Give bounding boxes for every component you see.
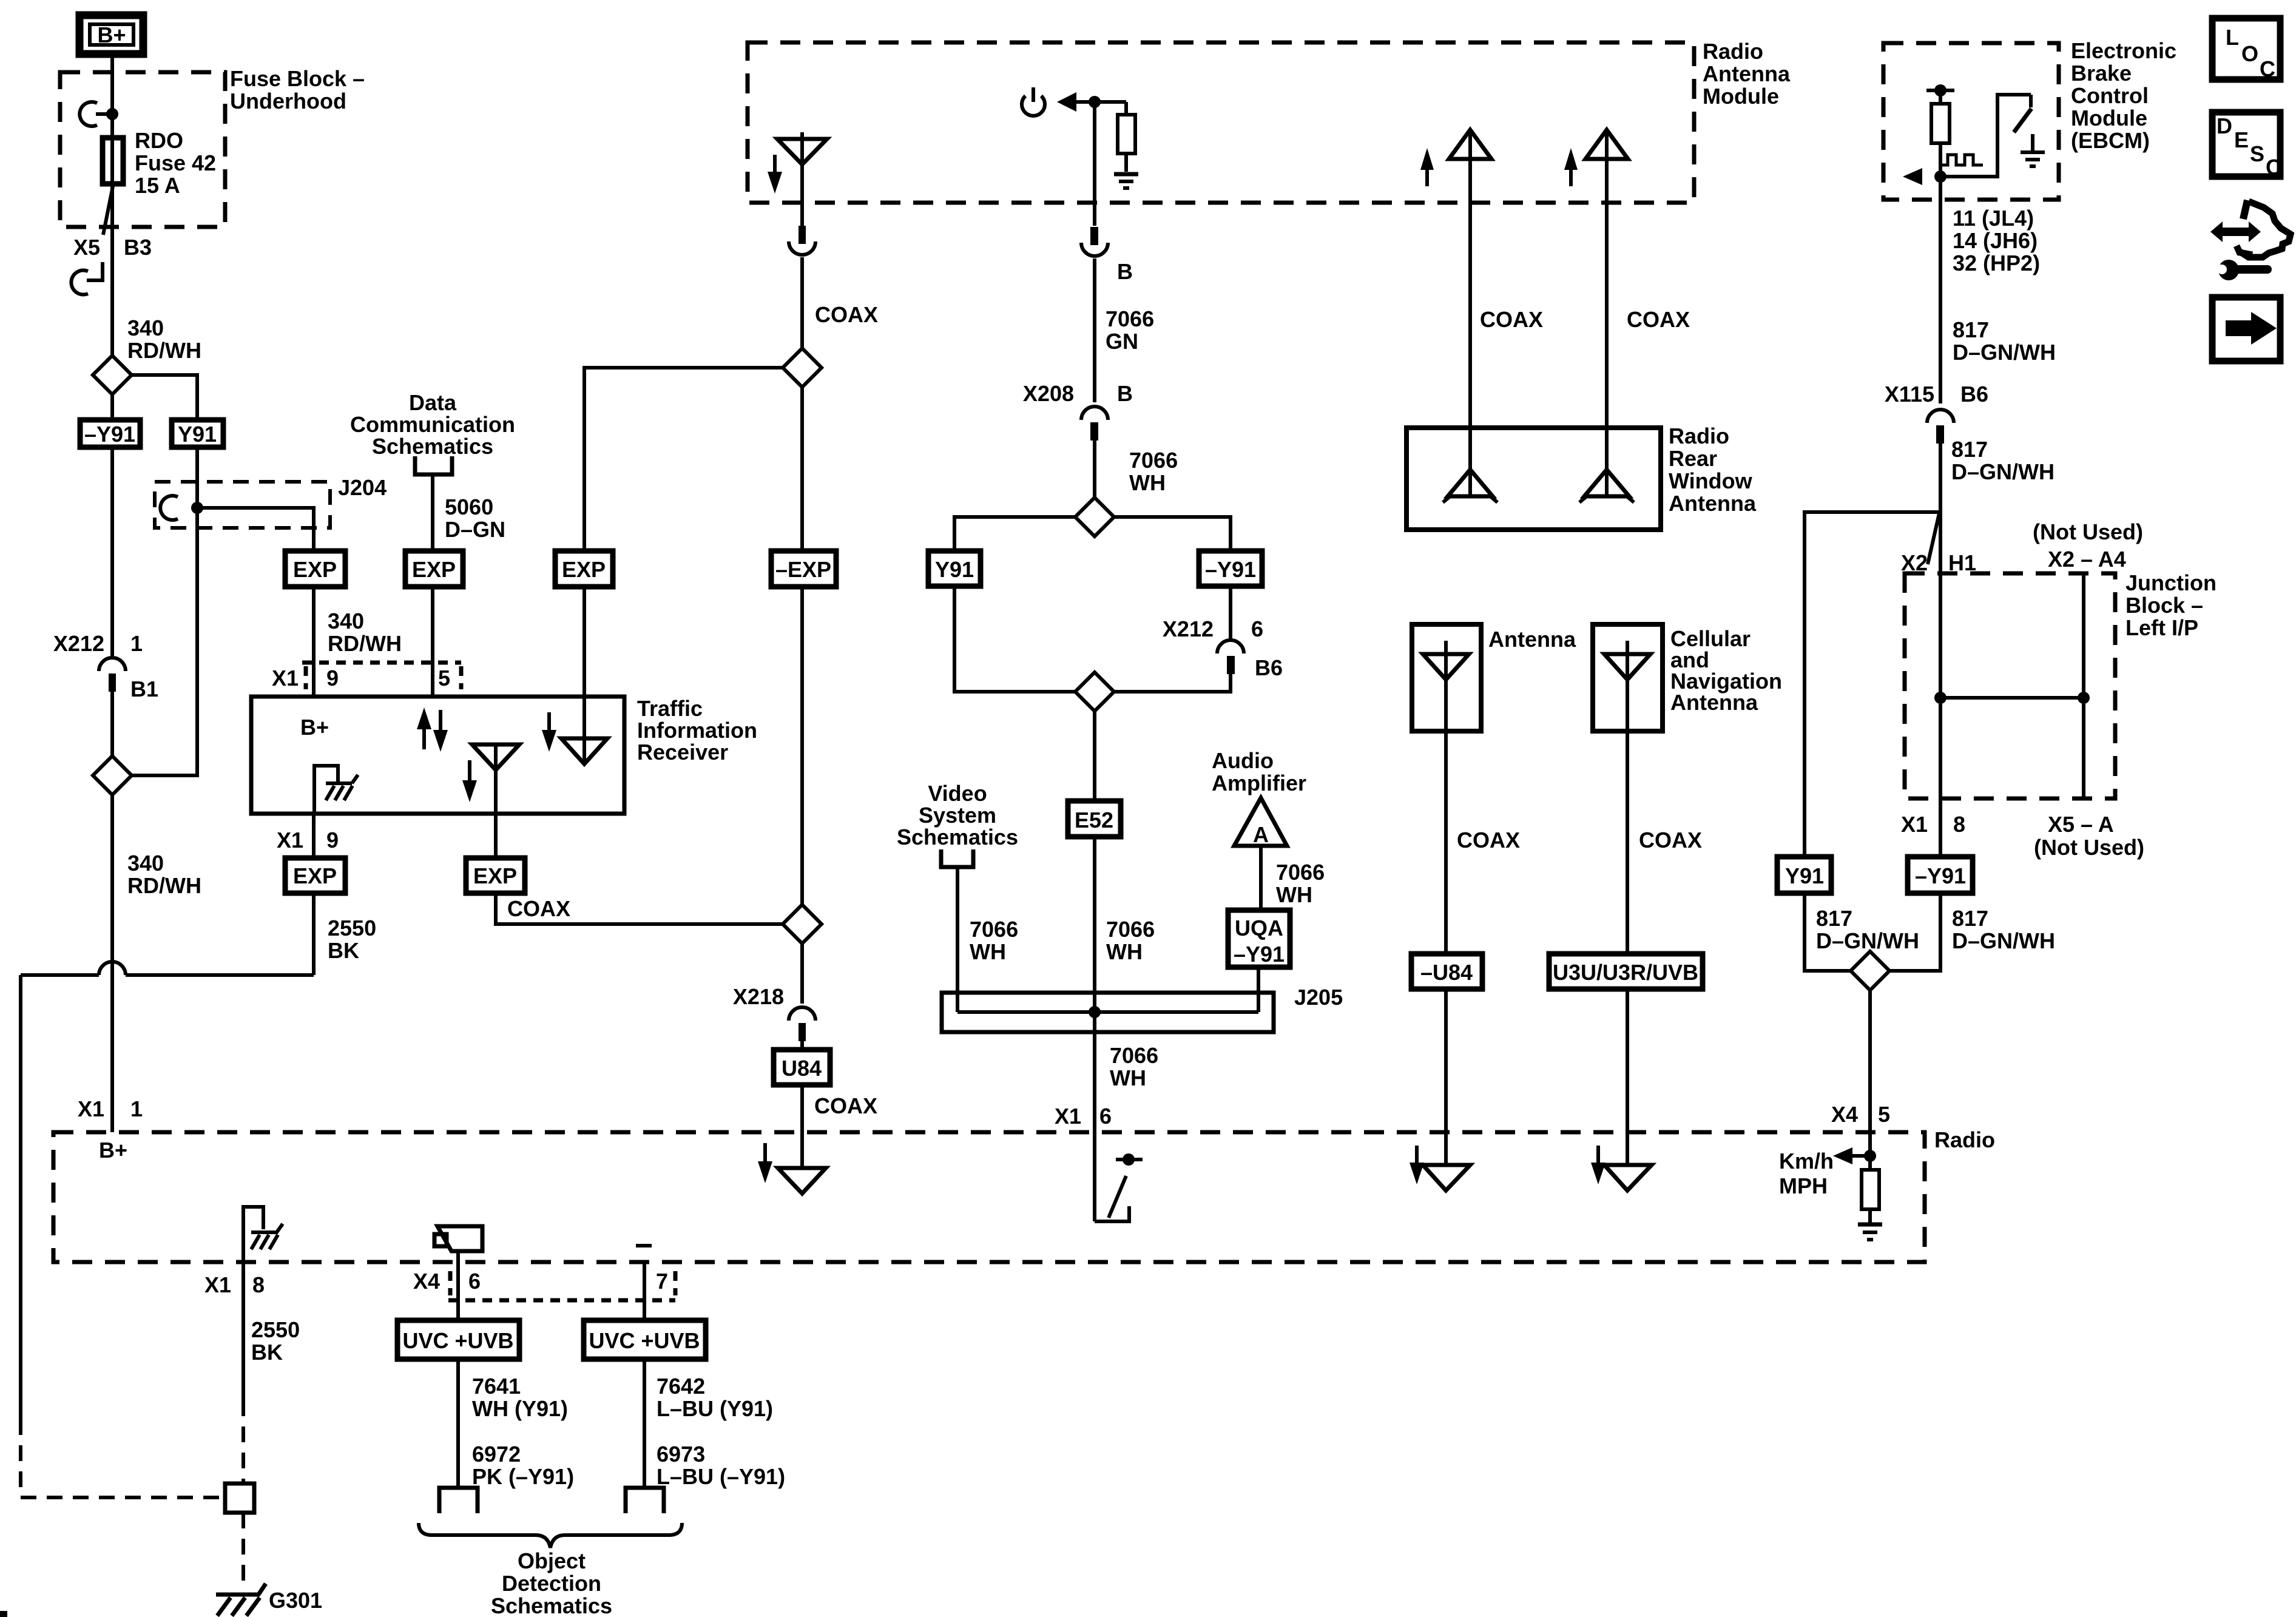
wire 340 RD/WH label lower bbox=[127, 851, 201, 898]
svg-text:340: 340 bbox=[127, 851, 164, 876]
Fuse Block - Underhood dashed box bbox=[60, 72, 225, 227]
module up arrow 1 bbox=[1420, 148, 1434, 186]
receiver antenna down arrow bbox=[462, 760, 477, 802]
wire 2 to UVC bbox=[643, 1261, 646, 1320]
svg-text:X4: X4 bbox=[413, 1269, 440, 1294]
EBCM dashed box bbox=[1883, 43, 2059, 200]
svg-text:S: S bbox=[2250, 141, 2264, 166]
svg-text:D–GN/WH: D–GN/WH bbox=[1816, 928, 1919, 953]
wire S2 to radio X1-1 bbox=[110, 795, 114, 1132]
wire U84 into radio bbox=[800, 1085, 804, 1168]
wire B to X208 bbox=[1093, 258, 1096, 402]
svg-text:EXP: EXP bbox=[293, 557, 337, 582]
svg-text:WH (Y91): WH (Y91) bbox=[472, 1396, 568, 1421]
wire bracket to EXP2 bbox=[431, 474, 434, 551]
module antenna up triangle 1 bbox=[1449, 130, 1491, 159]
wire EXP2 to receiver pin 5 bbox=[431, 587, 434, 697]
wire coax antenna module to splice S6 bbox=[789, 226, 815, 348]
Radio Antenna Module dashed box bbox=[748, 42, 1694, 203]
svg-text:11 (JL4): 11 (JL4) bbox=[1953, 206, 2034, 231]
svg-text:Receiver: Receiver bbox=[637, 740, 728, 765]
svg-text:340: 340 bbox=[328, 609, 364, 633]
wire 817 label under -Y91 bbox=[1952, 906, 2055, 953]
J205 internal bus bbox=[957, 993, 1258, 1032]
expansion box EXP 1 bbox=[285, 551, 345, 587]
antenna symbol in Cellular box bbox=[1604, 641, 1650, 731]
wire connector to G301 dashed bbox=[241, 1513, 245, 1591]
inline connector square bbox=[225, 1484, 254, 1513]
connector stub left bbox=[439, 1488, 478, 1513]
svg-text:D–GN/WH: D–GN/WH bbox=[1952, 928, 2055, 953]
svg-text:X1: X1 bbox=[204, 1272, 231, 1297]
wire Y91 to splice S5 bbox=[954, 586, 1075, 692]
Cellular and Navigation Antenna box bbox=[1593, 624, 1663, 731]
wire EXP1 to receiver pin 9 bbox=[312, 587, 316, 697]
page corner mark bbox=[0, 1611, 7, 1617]
radio antenna input triangle 3 bbox=[1604, 1165, 1652, 1190]
coax wire -U84 into radio bbox=[1444, 989, 1448, 1165]
wire S6 to -EXP bbox=[800, 387, 804, 551]
radio pin label X1 6 bbox=[1055, 1104, 1112, 1129]
dashed ground return to connector bbox=[21, 1419, 225, 1497]
wire X218 to U84 bbox=[800, 1041, 804, 1050]
next page arrow box bbox=[2212, 297, 2280, 361]
RDO Fuse 42 15 A label bbox=[135, 128, 216, 198]
svg-text:Traffic: Traffic bbox=[637, 696, 703, 721]
svg-text:X218: X218 bbox=[733, 984, 784, 1009]
wire amplifier to UQA bbox=[1259, 846, 1263, 910]
J204 junction dot bbox=[191, 502, 203, 514]
wire X212-6 to splice S5 bbox=[1114, 674, 1231, 692]
svg-text:B+: B+ bbox=[300, 715, 329, 740]
svg-text:(Not Used): (Not Used) bbox=[2034, 835, 2144, 860]
svg-text:X4: X4 bbox=[1831, 1102, 1858, 1127]
radio antenna input arrow bbox=[758, 1143, 772, 1183]
svg-text:EXP: EXP bbox=[562, 557, 606, 582]
receiver ground pin X1 9 bbox=[277, 828, 339, 852]
not used label X5-A bbox=[2034, 812, 2144, 860]
svg-text:B6: B6 bbox=[1960, 382, 1988, 407]
receiver internal antenna symbol bbox=[472, 744, 519, 814]
Audio Amplifier label bbox=[1212, 748, 1306, 795]
svg-text:Junction: Junction bbox=[2125, 570, 2217, 595]
svg-text:Y91: Y91 bbox=[935, 557, 974, 582]
svg-text:RD/WH: RD/WH bbox=[127, 873, 201, 898]
receiver RF input triangle bbox=[561, 738, 607, 764]
wire labels 7641 WH 6972 PK bbox=[472, 1374, 574, 1489]
EBCM pwm signal bbox=[1942, 155, 1983, 165]
junction dot power feed bbox=[1089, 96, 1101, 108]
svg-text:B+: B+ bbox=[99, 1138, 127, 1163]
svg-text:6: 6 bbox=[1099, 1104, 1112, 1129]
svg-text:J205: J205 bbox=[1294, 985, 1343, 1010]
module ground bbox=[1114, 174, 1138, 188]
svg-text:MPH: MPH bbox=[1779, 1173, 1828, 1198]
svg-text:Fuse 42: Fuse 42 bbox=[135, 150, 216, 175]
svg-text:B3: B3 bbox=[124, 235, 152, 260]
svg-text:WH: WH bbox=[1110, 1065, 1146, 1090]
radio internal ground to G301 bbox=[243, 1207, 283, 1262]
power symbol bbox=[1022, 87, 1045, 116]
svg-text:X1: X1 bbox=[272, 666, 299, 690]
svg-text:A: A bbox=[1253, 822, 1269, 847]
wire branch to Y91 right bbox=[1805, 512, 1940, 857]
radio antenna input triangle 2 bbox=[1423, 1165, 1470, 1190]
wire 2550 BK label lower bbox=[251, 1317, 300, 1365]
radio pin label X4 6 bbox=[413, 1269, 481, 1295]
connector X212 pin 1 B1 bbox=[53, 631, 158, 701]
EBCM output arrow bbox=[1903, 168, 1922, 185]
svg-text:B+: B+ bbox=[97, 22, 126, 47]
svg-text:B1: B1 bbox=[130, 677, 158, 701]
svg-text:PK (–Y91): PK (–Y91) bbox=[472, 1464, 574, 1489]
wire S4 to -Y91 center bbox=[1114, 517, 1231, 551]
not used label X2-A4 bbox=[2033, 519, 2143, 572]
wire -Y91 right to splice S7 bbox=[1889, 893, 1940, 971]
svg-text:E52: E52 bbox=[1075, 808, 1113, 832]
option box U3U/U3R/UVB bbox=[1549, 954, 1703, 989]
radio antenna input arrow 3 bbox=[1591, 1146, 1606, 1184]
svg-text:L–BU (Y91): L–BU (Y91) bbox=[657, 1396, 773, 1421]
Data Communication Schematics label bbox=[350, 390, 515, 459]
audio amplifier symbol A bbox=[1234, 798, 1287, 847]
wire 2550 BK label bbox=[328, 916, 376, 963]
svg-text:X1: X1 bbox=[1055, 1104, 1081, 1129]
fuse block cavity connector bbox=[79, 102, 118, 126]
Km/h MPH label bbox=[1779, 1149, 1834, 1198]
wire radio ground dashed to connector bbox=[241, 1400, 245, 1484]
svg-text:15 A: 15 A bbox=[135, 173, 180, 198]
svg-text:G301: G301 bbox=[269, 1588, 322, 1613]
svg-text:X1: X1 bbox=[78, 1096, 104, 1121]
radio pin label X4 5 bbox=[1831, 1102, 1890, 1127]
module up arrow 2 bbox=[1564, 148, 1578, 186]
svg-text:7066: 7066 bbox=[1129, 448, 1178, 473]
svg-text:U84: U84 bbox=[782, 1056, 822, 1081]
svg-text:7066: 7066 bbox=[1106, 306, 1154, 331]
svg-text:7066: 7066 bbox=[970, 917, 1018, 942]
off-page bracket video bbox=[941, 849, 973, 867]
connector X212 pin 6 B6 bbox=[1163, 616, 1283, 680]
off-page bracket data comm bbox=[415, 456, 452, 474]
svg-text:7642: 7642 bbox=[657, 1374, 705, 1399]
svg-text:6: 6 bbox=[468, 1269, 481, 1294]
power feed B+ terminal bbox=[79, 15, 143, 54]
expansion box -EXP bbox=[771, 551, 836, 587]
svg-text:Video: Video bbox=[928, 781, 987, 806]
wire -EXP to splice S3 bbox=[800, 587, 804, 905]
option box UVC +UVB left bbox=[397, 1320, 519, 1359]
svg-text:Data: Data bbox=[409, 390, 457, 415]
svg-text:System: System bbox=[919, 803, 996, 828]
svg-text:Y91: Y91 bbox=[1785, 863, 1824, 888]
svg-text:6973: 6973 bbox=[657, 1442, 705, 1467]
svg-text:8: 8 bbox=[252, 1272, 265, 1297]
Radio dashed box bbox=[53, 1132, 1925, 1262]
svg-text:Km/h: Km/h bbox=[1779, 1149, 1834, 1173]
connector X1 dashed line bbox=[302, 663, 461, 689]
svg-text:GN: GN bbox=[1106, 329, 1138, 354]
DESC legend box bbox=[2212, 112, 2281, 180]
svg-text:COAX: COAX bbox=[1480, 307, 1543, 332]
wire X115 through junction block bbox=[1939, 444, 1942, 857]
svg-text:–Y91: –Y91 bbox=[1205, 557, 1256, 582]
svg-text:7641: 7641 bbox=[472, 1374, 521, 1399]
EBCM label bbox=[2071, 38, 2176, 153]
svg-text:817: 817 bbox=[1953, 317, 1989, 342]
svg-text:Module: Module bbox=[2071, 106, 2147, 130]
module antenna up triangle 2 bbox=[1585, 130, 1628, 159]
wire 340 RD/WH label upper bbox=[127, 316, 201, 363]
option box UQA -Y91 bbox=[1228, 910, 1290, 967]
svg-text:6: 6 bbox=[1251, 616, 1263, 641]
Cellular and Navigation Antenna label bbox=[1670, 626, 1782, 715]
svg-text:COAX: COAX bbox=[507, 896, 570, 921]
radio internal switch bbox=[1095, 1153, 1143, 1221]
svg-text:8: 8 bbox=[1953, 812, 1965, 837]
svg-text:Electronic: Electronic bbox=[2071, 38, 2176, 63]
splice S4 diamond bbox=[1075, 498, 1114, 536]
splice pack J205 box bbox=[942, 993, 1274, 1032]
svg-text:Window: Window bbox=[1669, 468, 1753, 493]
EBCM supply node bbox=[1926, 84, 1954, 96]
svg-text:Antenna: Antenna bbox=[1703, 61, 1791, 86]
svg-text:–Y91: –Y91 bbox=[84, 422, 135, 447]
svg-text:D: D bbox=[2217, 113, 2232, 138]
svg-text:L: L bbox=[2226, 25, 2239, 50]
svg-text:J204: J204 bbox=[338, 475, 387, 500]
Radio Rear Window Antenna box bbox=[1406, 428, 1661, 530]
connector X218 bbox=[733, 984, 815, 1041]
antenna symbol in Antenna box bbox=[1423, 641, 1469, 731]
connector X208 pin B bbox=[1023, 381, 1133, 441]
junction block second wire bbox=[2082, 573, 2085, 798]
wire -Y91 to connector X212 bbox=[110, 447, 114, 657]
svg-text:817: 817 bbox=[1952, 906, 1988, 931]
svg-text:(Not Used): (Not Used) bbox=[2033, 519, 2143, 544]
svg-text:Module: Module bbox=[1703, 84, 1779, 109]
Junction Block Left I/P dashed box bbox=[1905, 573, 2115, 798]
expansion box EXP 3 bbox=[555, 551, 613, 587]
option box -Y91 bbox=[80, 420, 140, 447]
svg-text:817: 817 bbox=[1951, 437, 1988, 462]
connector X5 pin B3 bbox=[71, 186, 152, 295]
expansion box EXP 2 bbox=[405, 551, 463, 587]
object detection brace bbox=[419, 1523, 682, 1548]
radio antenna input triangle bbox=[778, 1168, 826, 1193]
svg-text:Rear: Rear bbox=[1669, 446, 1717, 471]
rear window antenna element 2 bbox=[1579, 470, 1634, 502]
junction block pin X1 8 bbox=[1901, 812, 1965, 837]
svg-text:Left I/P: Left I/P bbox=[2125, 615, 2198, 640]
wire J205 to radio X1-6 bbox=[1093, 1032, 1096, 1221]
EBCM output dot bbox=[1934, 170, 1947, 183]
svg-text:Schematics: Schematics bbox=[372, 434, 493, 459]
svg-text:Control: Control bbox=[2071, 83, 2149, 108]
svg-text:7066: 7066 bbox=[1110, 1043, 1158, 1068]
connector X2 pin H1 bbox=[1901, 513, 1976, 575]
wire E52 to J205 bbox=[1093, 837, 1096, 1012]
wire 7066 WH label video bbox=[970, 917, 1018, 964]
svg-text:D–GN: D–GN bbox=[445, 517, 505, 542]
EBCM pin labels bbox=[1953, 206, 2040, 275]
wire 817 D-GN/WH label 1 bbox=[1953, 317, 2056, 365]
wire Y91 right to splice S7 bbox=[1805, 893, 1851, 971]
svg-text:7066: 7066 bbox=[1106, 917, 1155, 942]
wire S6 to EXP3 bbox=[584, 368, 783, 551]
svg-text:340: 340 bbox=[127, 316, 164, 340]
svg-text:2550: 2550 bbox=[328, 916, 376, 940]
wire receiver to EXP4 bbox=[312, 814, 316, 858]
svg-text:Antenna: Antenna bbox=[1488, 627, 1576, 652]
module connector terminal B bbox=[1081, 227, 1133, 284]
wire 340 RD/WH label EXP bbox=[328, 609, 402, 656]
service tool icon bbox=[2210, 200, 2291, 280]
svg-text:COAX: COAX bbox=[815, 302, 878, 327]
Traffic Information Receiver box bbox=[251, 697, 624, 814]
svg-text:WH: WH bbox=[1106, 939, 1143, 964]
pin labels X1 9 5 bbox=[272, 666, 450, 690]
object detection module dashed edge bbox=[448, 1271, 675, 1300]
svg-text:–Y91: –Y91 bbox=[1234, 942, 1285, 967]
svg-text:WH: WH bbox=[1129, 470, 1166, 495]
svg-text:RD/WH: RD/WH bbox=[328, 631, 402, 656]
splice S7 diamond bbox=[1851, 951, 1889, 990]
wire -Y91 to connector X212-6 bbox=[1229, 586, 1232, 639]
wire B+ to splice S1 bbox=[110, 55, 114, 357]
wire 7066 WH label lower bbox=[1110, 1043, 1158, 1090]
svg-text:1: 1 bbox=[130, 631, 143, 656]
svg-text:WH: WH bbox=[1276, 882, 1312, 907]
wire UVC left down bbox=[456, 1359, 460, 1488]
fuse RDO Fuse 42 15 A bbox=[103, 138, 123, 184]
EBCM ground bbox=[2021, 134, 2045, 166]
svg-text:Brake: Brake bbox=[2071, 61, 2132, 86]
option box -Y91 center bbox=[1199, 551, 1262, 586]
svg-text:–EXP: –EXP bbox=[775, 557, 831, 582]
svg-text:X115: X115 bbox=[1885, 382, 1934, 407]
svg-text:COAX: COAX bbox=[1627, 307, 1690, 332]
splice S3 diamond bbox=[783, 905, 822, 944]
wire X208 to splice S4 bbox=[1093, 441, 1096, 498]
rear view camera icon bbox=[434, 1226, 482, 1251]
svg-text:–U84: –U84 bbox=[1420, 960, 1473, 985]
wire 5060 D-GN label bbox=[445, 495, 505, 542]
svg-text:EXP: EXP bbox=[293, 863, 337, 888]
svg-text:7066: 7066 bbox=[1276, 860, 1325, 885]
svg-text:D–GN/WH: D–GN/WH bbox=[1951, 459, 2055, 484]
coax wire antenna to -U84 bbox=[1444, 731, 1448, 954]
wire S5 to E52 bbox=[1093, 711, 1096, 801]
svg-text:COAX: COAX bbox=[1639, 828, 1702, 852]
svg-text:BK: BK bbox=[251, 1340, 283, 1365]
wire 817 D-GN/WH label 2 bbox=[1951, 437, 2055, 484]
option box Y91 center bbox=[928, 551, 981, 586]
J204 cavity connector bbox=[160, 496, 178, 520]
svg-text:X5: X5 bbox=[73, 235, 100, 260]
splice S2 diamond bbox=[93, 756, 132, 795]
Fuse Block - Underhood label bbox=[230, 66, 365, 113]
option box E52 bbox=[1068, 801, 1121, 837]
svg-text:B6: B6 bbox=[1255, 655, 1283, 680]
svg-text:X208: X208 bbox=[1023, 381, 1074, 406]
receiver internal ground bbox=[314, 766, 358, 814]
module resistor bbox=[1118, 102, 1135, 172]
minus terminal mark bbox=[636, 1244, 652, 1247]
wire S4 to Y91 center bbox=[954, 517, 1075, 551]
svg-text:RDO: RDO bbox=[135, 128, 183, 153]
svg-text:X1: X1 bbox=[277, 828, 303, 852]
Traffic Information Receiver label bbox=[637, 696, 757, 765]
svg-text:EXP: EXP bbox=[473, 863, 517, 888]
svg-text:BK: BK bbox=[328, 938, 359, 963]
EBCM switch bbox=[1940, 95, 2031, 177]
Radio Rear Window Antenna label bbox=[1669, 424, 1757, 516]
option box Y91 right bbox=[1777, 857, 1831, 893]
svg-text:1: 1 bbox=[130, 1096, 143, 1121]
svg-text:COAX: COAX bbox=[1457, 828, 1520, 852]
wire UVC right down bbox=[643, 1359, 646, 1488]
radio internal resistor bbox=[1862, 1156, 1879, 1223]
splice pack J204 dashed box bbox=[155, 482, 330, 528]
Antenna box bbox=[1412, 624, 1481, 731]
svg-text:L–BU (–Y91): L–BU (–Y91) bbox=[657, 1464, 785, 1489]
expansion box EXP 4 bbox=[285, 858, 345, 893]
svg-text:C: C bbox=[2266, 155, 2281, 180]
svg-text:32 (HP2): 32 (HP2) bbox=[1953, 251, 2040, 275]
rear window coax wire 1 bbox=[1468, 130, 1472, 471]
svg-text:Object: Object bbox=[518, 1548, 586, 1573]
svg-text:Radio: Radio bbox=[1934, 1127, 1995, 1152]
wire radio ground solid part bbox=[241, 1262, 245, 1400]
svg-text:COAX: COAX bbox=[814, 1093, 877, 1118]
wire Y91 through J204 to splice S2 bbox=[132, 447, 197, 775]
svg-text:Antenna: Antenna bbox=[1669, 491, 1757, 516]
svg-text:2550: 2550 bbox=[251, 1317, 300, 1342]
option box -Y91 right bbox=[1908, 857, 1973, 893]
arrow to power symbol bbox=[1057, 92, 1126, 112]
wire 7066 WH label amp bbox=[1276, 860, 1325, 907]
module antenna symbol bbox=[777, 132, 827, 226]
svg-text:O: O bbox=[2241, 41, 2258, 66]
wire S1 to Y91 box bbox=[132, 375, 197, 420]
svg-text:Amplifier: Amplifier bbox=[1212, 771, 1306, 795]
svg-text:Y91: Y91 bbox=[178, 422, 217, 447]
option box Y91 bbox=[172, 420, 223, 447]
wire video to J205 bbox=[956, 867, 959, 1012]
coax wire EXP5 to splice S3 bbox=[496, 893, 783, 924]
svg-text:5060: 5060 bbox=[445, 495, 493, 519]
svg-text:6972: 6972 bbox=[472, 1442, 521, 1467]
wire 7066 GN label bbox=[1106, 306, 1154, 354]
Radio Antenna Module label bbox=[1703, 39, 1791, 109]
svg-text:EXP: EXP bbox=[412, 557, 456, 582]
connector stub right bbox=[626, 1488, 664, 1513]
svg-text:Fuse Block –: Fuse Block – bbox=[230, 66, 365, 91]
svg-text:X212: X212 bbox=[53, 631, 104, 656]
camera wire to UVC bbox=[456, 1251, 460, 1320]
svg-text:Block –: Block – bbox=[2125, 593, 2203, 618]
svg-text:UVC +UVB: UVC +UVB bbox=[589, 1328, 700, 1353]
svg-text:B: B bbox=[1117, 381, 1133, 406]
svg-text:UVC +UVB: UVC +UVB bbox=[402, 1328, 513, 1353]
svg-text:5: 5 bbox=[438, 666, 450, 690]
coax wire U3U into radio bbox=[1626, 989, 1629, 1165]
svg-text:Radio: Radio bbox=[1669, 424, 1729, 448]
svg-text:U3U/U3R/UVB: U3U/U3R/UVB bbox=[1553, 960, 1698, 985]
wire EXP3 into receiver bbox=[582, 587, 586, 763]
radio speed arrow bbox=[1833, 1147, 1870, 1164]
